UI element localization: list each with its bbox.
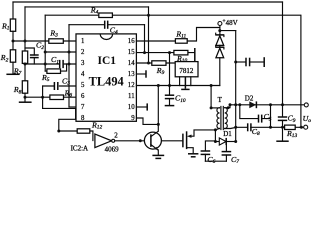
wire inverter output to gate	[115, 140, 183, 142]
node vcc C10 branch	[168, 84, 171, 87]
wire C5 right vertical to lower row	[270, 105, 272, 128]
node C1 row left	[44, 63, 47, 66]
svg-text:2: 2	[114, 131, 118, 139]
node C5 loop right top	[269, 103, 272, 106]
node pin14 V2	[147, 62, 150, 65]
svg-text:D2: D2	[245, 95, 254, 103]
capacitor C9	[278, 105, 296, 141]
wire rail2 drop to R7	[24, 7, 26, 51]
wire V2 drop rail2 to pin14	[148, 7, 150, 63]
zener D3	[216, 33, 224, 45]
svg-text:2: 2	[81, 49, 85, 56]
node lower row left vertical	[269, 126, 272, 129]
wire lower output row	[236, 126, 300, 128]
pin numbers left column	[81, 38, 85, 122]
resistor R9	[152, 61, 166, 76]
wire C6 C7 bottom link	[205, 160, 226, 162]
node inverter output row right	[159, 139, 162, 142]
node C5 loop left	[238, 103, 241, 106]
capacitor C6	[201, 141, 216, 165]
node drain transformer junction	[214, 128, 217, 131]
wire pin9 to collector node	[136, 118, 158, 124]
capacitor C10	[165, 86, 186, 105]
svg-text:TL494: TL494	[89, 75, 124, 89]
node C8 row left	[234, 126, 237, 129]
wire pin13 stub bar	[136, 70, 146, 77]
svg-text:16: 16	[128, 38, 135, 45]
svg-text:11: 11	[128, 93, 135, 100]
node R7-R8 junction	[24, 63, 27, 66]
node feedback drop on output row	[281, 103, 284, 106]
node R6 row left vertical	[41, 96, 44, 99]
capacitor C5	[259, 112, 272, 122]
node pin8 drop	[57, 130, 60, 133]
node C1 row right on Va	[68, 63, 71, 66]
resistor R2	[0, 50, 16, 64]
svg-text:7: 7	[81, 104, 85, 111]
wire secondary bottom to lower row	[225, 127, 236, 128]
node rail2 on pin1 rail	[24, 40, 27, 43]
diode D1	[215, 130, 235, 145]
resistor R5	[41, 64, 67, 83]
ground below C9	[276, 140, 288, 142]
wire output top row	[230, 104, 304, 106]
terminal output upper	[304, 103, 308, 107]
wire C3 row pin5	[43, 85, 76, 87]
wire feedback rail1 drop	[282, 2, 284, 105]
terminal +48V	[218, 19, 238, 27]
svg-text:13: 13	[128, 71, 135, 78]
node primary top	[210, 106, 213, 109]
svg-text:6: 6	[81, 93, 85, 100]
wire pin3 row with C1	[25, 63, 76, 65]
node pin15 C10 branch	[168, 51, 171, 54]
svg-text:1: 1	[81, 38, 84, 45]
wire 7812 legs	[180, 77, 191, 86]
zener D4	[216, 46, 224, 58]
wire R7 to R8	[24, 63, 26, 80]
node D1 right	[234, 140, 237, 143]
node 48V junction	[218, 29, 221, 32]
wire pin2 stub	[45, 51, 76, 53]
svg-text:3: 3	[81, 60, 85, 67]
node pin15 V1	[143, 51, 146, 54]
svg-text:IC2:A: IC2:A	[71, 144, 89, 152]
wire R10 end bar	[194, 48, 196, 62]
wire C5 bypass loop	[240, 105, 271, 119]
wire snubber cap rail drop	[235, 31, 237, 142]
resistor R4	[90, 5, 113, 17]
capacitor C2	[25, 41, 44, 64]
wire VCC rail pin12	[136, 85, 219, 87]
wire 48V branch right	[220, 30, 236, 32]
resistor R11	[175, 29, 187, 43]
wire left rail pin1 row	[13, 40, 76, 42]
resistor R7	[13, 51, 28, 77]
svg-text:5: 5	[81, 82, 85, 89]
wire pin7 stub	[69, 106, 76, 108]
resistor R13	[285, 125, 298, 139]
terminal output lower	[304, 125, 308, 129]
wire timing network left vertical	[42, 86, 44, 108]
node D1 left	[214, 140, 217, 143]
wire rail3 drop through C1 row to R5 loop	[44, 15, 46, 71]
capacitor C1	[51, 55, 63, 68]
svg-text:T: T	[218, 96, 223, 104]
wire R8 bottom stem	[24, 93, 26, 101]
wire Va vertical rail	[68, 25, 70, 107]
node collector junction	[157, 123, 160, 126]
wire 48V stem	[219, 26, 221, 35]
svg-text:+48V: +48V	[222, 19, 237, 27]
wire bottom rail to pin8	[43, 108, 76, 131]
resistor R1	[1, 19, 16, 32]
node pin2 row left	[44, 51, 47, 54]
wire C4 row above chip	[69, 24, 145, 26]
svg-text:10: 10	[128, 104, 135, 111]
node R8 bottom	[24, 96, 27, 99]
node vcc transformer branch	[210, 84, 213, 87]
svg-text:15: 15	[128, 49, 135, 56]
resistor R8	[13, 81, 28, 96]
wire R1 top stem	[12, 2, 14, 19]
node pin2 on Va	[68, 51, 71, 54]
wire R2 bottom stem	[12, 62, 14, 73]
ground below mosfet source	[188, 154, 198, 157]
IC1 TL494 chip body	[76, 34, 136, 121]
node C9 on lower row	[281, 126, 284, 129]
node secondary top on output row	[229, 103, 232, 106]
node vcc collector branch	[157, 84, 160, 87]
wire primary top link	[211, 107, 219, 109]
transistor Q1	[144, 124, 161, 154]
wire V1 drop C4row to pin15	[144, 25, 146, 53]
wire pin10 stub bar	[136, 103, 147, 110]
capacitor C3	[54, 76, 70, 90]
wire drain node down to D1	[214, 130, 216, 142]
wire pin16 row to R11	[136, 28, 220, 42]
resistor R3	[49, 28, 64, 43]
wire primary bottom link	[215, 129, 219, 130]
diode D2	[245, 95, 257, 109]
wire secondary top to output row	[225, 105, 230, 108]
mosfet V1	[183, 130, 216, 153]
resistor R10	[174, 50, 188, 64]
capacitor C11	[236, 57, 265, 67]
wire pin15 row with R10	[136, 52, 194, 54]
wire R12 row	[59, 131, 93, 141]
ground bar 7812 middle leg	[181, 88, 189, 90]
regulator U2 7812	[175, 62, 198, 77]
wire R1 bottom to rail	[12, 31, 14, 50]
resistor R12	[77, 120, 102, 133]
wire top rail 3 with R4	[45, 14, 300, 16]
svg-text:4069: 4069	[105, 145, 120, 153]
wire top rail 2	[25, 6, 149, 8]
node lower terminal junction	[300, 126, 303, 129]
svg-text:4: 4	[81, 71, 85, 78]
capacitor C7	[222, 142, 240, 166]
svg-text:8: 8	[81, 115, 85, 122]
wire vcc to transformer primary drop	[210, 86, 212, 108]
node snubber rail on output row	[234, 103, 237, 106]
svg-text:9: 9	[131, 115, 135, 122]
resistor R6	[50, 88, 72, 99]
svg-text:7812: 7812	[179, 67, 194, 75]
transformer T	[217, 96, 227, 130]
wire pin15 to vcc vertical	[169, 53, 171, 86]
node R1-R2 junction	[12, 40, 15, 43]
wire rail3 drop to lower terminal	[300, 15, 304, 127]
wire collector up to vcc rail	[157, 86, 159, 125]
pin numbers right column	[128, 38, 135, 122]
ground below R2	[6, 73, 19, 75]
node snubber cap row	[234, 61, 237, 64]
inverter IC2:A 4069	[71, 131, 120, 153]
wire zener bottom to vcc rail	[219, 58, 221, 86]
capacitor C8	[248, 123, 260, 137]
wire pin14 row to 7812	[136, 62, 175, 64]
svg-text:D1: D1	[223, 130, 232, 138]
node secondary winding top	[227, 106, 230, 109]
node V2 on rail3	[147, 14, 150, 17]
svg-text:IC1: IC1	[98, 55, 117, 67]
wire zener link	[219, 45, 221, 47]
node inverter output row left	[139, 139, 142, 142]
wire R6 row pin6	[25, 96, 76, 98]
svg-text:14: 14	[128, 60, 135, 67]
ground below C10	[165, 105, 175, 107]
svg-text:12: 12	[128, 82, 135, 89]
capacitor C4	[105, 21, 118, 36]
ground below R8	[19, 101, 32, 103]
ground below Q1 emitter	[152, 155, 164, 158]
wire top feedback rail 1	[13, 1, 283, 3]
